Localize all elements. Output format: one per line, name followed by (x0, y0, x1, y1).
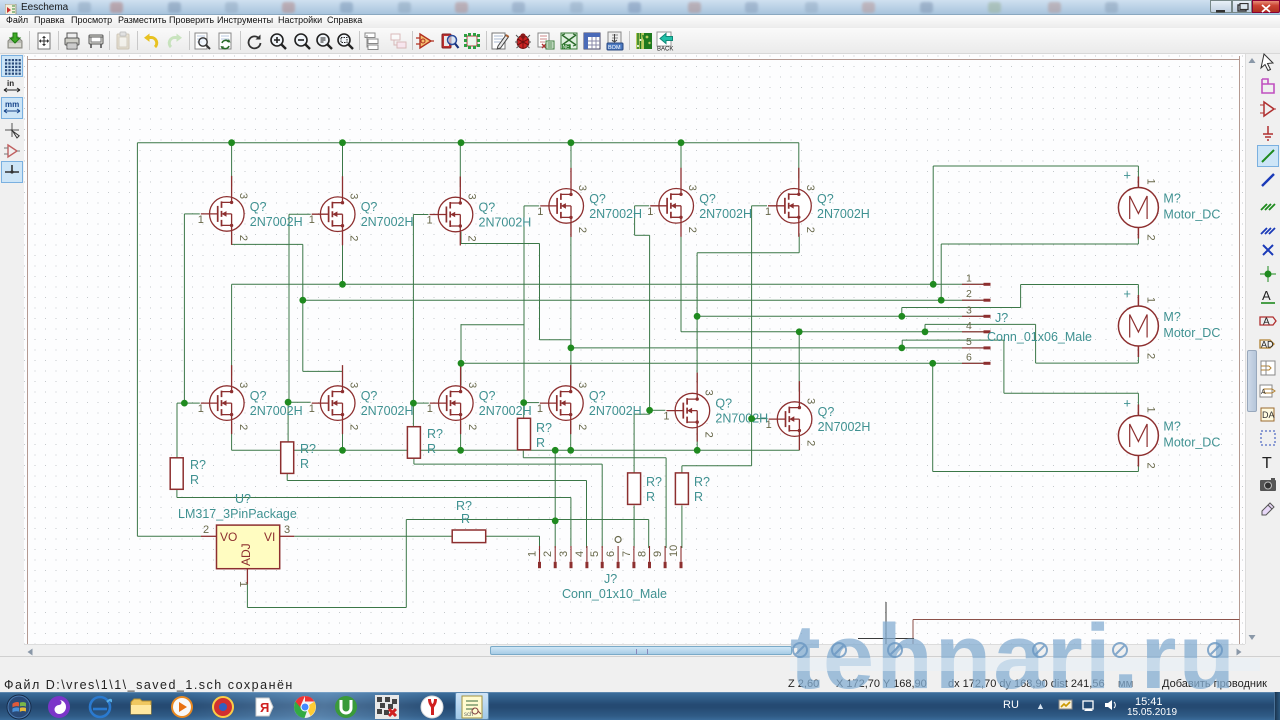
wire motor2+ drop (1137, 285, 1139, 297)
svg-text:1: 1 (427, 403, 433, 415)
junction pin1/motor1+ (930, 281, 937, 288)
svg-text:Я: Я (260, 700, 269, 715)
svg-text:1: 1 (537, 403, 543, 415)
svg-text:3: 3 (284, 524, 290, 536)
wire to Q2b drain (342, 371, 344, 375)
svg-text:2: 2 (466, 424, 478, 430)
cursor crosshair (858, 602, 914, 652)
wire J10 pin8 drop (648, 520, 650, 549)
svg-text:2N7002H: 2N7002H (250, 404, 303, 418)
junction bus J10 pin2 (552, 447, 559, 454)
svg-text:M?: M? (1163, 310, 1180, 324)
svg-text:2: 2 (466, 236, 478, 242)
svg-text:R: R (461, 512, 470, 526)
junction pin1/Q2 source (339, 281, 346, 288)
junction on top rail (678, 139, 685, 146)
svg-text:Conn_01x06_Male: Conn_01x06_Male (987, 330, 1092, 344)
junction Q3 gates (410, 400, 417, 407)
pin 8 of J10 (649, 546, 651, 562)
wire motor3+ jog v (901, 340, 903, 348)
wire motor3- horizontal (933, 471, 1139, 473)
pin 2 of J10 (554, 546, 556, 562)
svg-text:NET: NET (563, 45, 573, 51)
wire to Q3 bottom gate (413, 402, 428, 404)
svg-text:3: 3 (348, 193, 360, 199)
svg-text:2N7002H: 2N7002H (589, 404, 642, 418)
wire Q1 top source down (231, 231, 233, 244)
svg-text:1: 1 (1144, 297, 1156, 303)
transistor Q5 (bottom row) (198, 365, 303, 434)
svg-text:Q?: Q? (589, 389, 606, 403)
svg-text:2: 2 (203, 524, 209, 536)
wire R5 top (633, 414, 635, 473)
svg-text:4: 4 (966, 320, 972, 332)
svg-text:Motor_DC: Motor_DC (1163, 208, 1220, 222)
wire to Q4 bottom gate (524, 402, 539, 404)
junction Q4 gates (520, 399, 527, 406)
wire R6 top (681, 466, 683, 473)
wire R4 to J10 pin9 (523, 457, 666, 459)
svg-text:AD: AD (1261, 340, 1274, 350)
resistor R9 (452, 499, 486, 543)
svg-text:1: 1 (198, 403, 204, 415)
wire R5 jog v (649, 410, 651, 414)
wire Q2 gate bus (288, 214, 290, 402)
svg-text:VO: VO (220, 530, 237, 544)
svg-text:+: + (1123, 168, 1131, 183)
wire R3 top (412, 403, 414, 427)
wire motor1- drop (1137, 237, 1139, 244)
wire U1 ADJ down (246, 584, 248, 607)
wire J10 pin5 drop (601, 464, 603, 548)
wire top rail to Q1 drain (231, 143, 233, 187)
svg-text:5: 5 (966, 336, 972, 348)
svg-text:2N7002H: 2N7002H (699, 207, 752, 221)
wire top rail to Q5 drain (680, 143, 682, 179)
wire source bus to J10 pin2 (554, 450, 556, 548)
wire R9 to J10 pin1 (486, 535, 540, 537)
wire Q3 source down 2 (539, 244, 541, 340)
junction bus Q2b source (339, 447, 346, 454)
svg-text:+: + (1123, 396, 1131, 411)
svg-text:2: 2 (542, 551, 554, 557)
wire Q3 source into pin5 (570, 340, 572, 348)
pin 4 of J2 (962, 331, 984, 333)
wire motor2- riser (1035, 324, 1037, 363)
wire Q4b source down (570, 421, 572, 451)
svg-text:2: 2 (805, 440, 817, 446)
sheet frame top border (28, 59, 1240, 61)
junction pin6 (458, 360, 465, 367)
svg-text:3: 3 (237, 382, 249, 388)
svg-text:R?: R? (456, 499, 472, 513)
title block left edge (912, 620, 914, 645)
wire motor2+ jog h (902, 307, 1021, 309)
no-connect circle on pin 6 of J10 (615, 537, 621, 543)
wire R2 bottom (286, 473, 288, 480)
pin 5 of J2 (962, 347, 984, 349)
svg-text:1: 1 (527, 551, 539, 557)
wire motor3- drop (1137, 465, 1139, 472)
svg-text:Q?: Q? (361, 200, 378, 214)
svg-text:R: R (190, 473, 199, 487)
wire J10 pin1 drop (539, 536, 541, 548)
wire motor3+ riser (1003, 340, 1005, 393)
transistor Q4 (top row) (537, 168, 642, 237)
svg-text:Q?: Q? (361, 389, 378, 403)
svg-text:LM317_3PinPackage: LM317_3PinPackage (178, 507, 297, 521)
resistor R5 (628, 473, 662, 505)
wire to Q2 top gate (289, 213, 311, 215)
junction pin3 (694, 313, 701, 320)
svg-text:1: 1 (537, 206, 543, 218)
wire Q3 source jog h2 (540, 339, 571, 341)
wire pin1 to Q1b drain (231, 284, 233, 375)
wire Q2 top source down (342, 232, 344, 285)
wire R1 top (176, 403, 178, 458)
wire motor1- horizontal (941, 243, 1138, 245)
svg-text:2: 2 (237, 424, 249, 430)
transistor Q2 (top row) (309, 176, 414, 245)
svg-text:2N7002H: 2N7002H (589, 207, 642, 221)
wire J2 pin6 net (461, 362, 986, 364)
junction Q6 gates (748, 415, 755, 422)
wire J2 pin1 net (232, 283, 984, 285)
wire R2 top (287, 402, 289, 442)
wire R1 to J10 pin3 (177, 497, 571, 499)
wire motor2+ riser (1020, 285, 1022, 308)
svg-text:3: 3 (576, 185, 588, 191)
junction on top rail (458, 139, 465, 146)
wire R4 bottom (522, 450, 524, 458)
svg-text:+: + (1123, 286, 1131, 301)
wire Q5 gate jog v (634, 206, 636, 236)
junction pin5/motor3+ (898, 345, 905, 352)
junction ADJ line / J10 pin2 (552, 517, 559, 524)
junction pin6/motor3- (929, 360, 936, 367)
svg-text:2: 2 (804, 227, 816, 233)
resistor R6 (675, 473, 710, 505)
junction pin2 (299, 297, 306, 304)
svg-text:2: 2 (1144, 353, 1156, 359)
wire motor3+ jog h (902, 339, 1004, 341)
svg-text:Q?: Q? (818, 405, 835, 419)
junction pin5 (568, 345, 575, 352)
motor M2 (1118, 286, 1220, 359)
wire Q5 gate jog h (635, 234, 650, 236)
svg-text:8: 8 (637, 551, 649, 557)
junction bus Q3b source (457, 447, 464, 454)
svg-text:ADJ: ADJ (239, 543, 253, 566)
wire R6 to J10 pin10 (681, 505, 683, 548)
pin 6 of J2 (962, 362, 984, 364)
pin 7 of J10 (633, 546, 635, 562)
wire ADJ to J10 pin8 (406, 519, 648, 521)
wire Q6 source jog (697, 252, 799, 254)
svg-text:2: 2 (1144, 463, 1156, 469)
svg-text:BACK: BACK (657, 47, 673, 52)
wire J10 pin9 drop (665, 458, 667, 548)
svg-text:2: 2 (686, 227, 698, 233)
svg-text:3: 3 (702, 390, 714, 396)
svg-text:7: 7 (621, 551, 633, 557)
wire Q3 top source down (460, 232, 462, 244)
svg-text:Q?: Q? (817, 192, 834, 206)
wire top rail to Q4 drain (570, 143, 572, 179)
svg-text:2N7002H: 2N7002H (250, 215, 303, 229)
svg-text:M?: M? (1163, 192, 1180, 206)
svg-text:3: 3 (804, 185, 816, 191)
wire Q3 source jog h (461, 243, 540, 245)
wire Q4 gate bus (523, 206, 525, 403)
svg-text:3: 3 (348, 382, 360, 388)
svg-text:R?: R? (536, 421, 552, 435)
svg-text:Q?: Q? (589, 192, 606, 206)
svg-text:R: R (536, 436, 545, 450)
svg-text:R: R (694, 490, 703, 504)
wire motor2- jog v (924, 324, 926, 332)
pin 4 of J10 (586, 546, 588, 562)
junction bus Q4b source (567, 447, 574, 454)
svg-text:R: R (646, 490, 655, 504)
wire Q1 gate bus (183, 214, 185, 403)
wire source bus (232, 449, 800, 451)
wire J10 pin3 drop (570, 498, 572, 549)
svg-text:R?: R? (646, 475, 662, 489)
svg-text:mm: mm (5, 100, 19, 109)
svg-text:3: 3 (237, 193, 249, 199)
pin 9 of J10 (664, 546, 666, 562)
svg-text:5: 5 (589, 551, 601, 557)
wire top rail to Q2 drain (342, 143, 344, 187)
transistor Q5 (top row) (647, 168, 752, 237)
resistor R3 (407, 427, 443, 459)
wire J2 pin2 net (303, 299, 984, 301)
svg-text:2N7002H: 2N7002H (479, 216, 532, 230)
wire to Q6 top gate (752, 205, 767, 207)
svg-text:1: 1 (647, 206, 653, 218)
svg-text:2N7002H: 2N7002H (479, 404, 532, 418)
wire J10 pin4 drop (586, 481, 588, 549)
wire Q6 source to pin3 and Q5b drain (696, 253, 698, 383)
voltage regulator U1 LM317_3PinPackage (178, 492, 297, 587)
svg-text:1: 1 (198, 214, 204, 226)
svg-text:R?: R? (427, 427, 443, 441)
sheet frame right border (1239, 56, 1241, 644)
transistor Q10 (bottom row) (766, 381, 871, 450)
transistor Q7 (bottom row) (427, 365, 532, 434)
wire Q2b source down (342, 421, 344, 451)
connector J10 Conn_01x10_Male (527, 537, 682, 602)
svg-text:Q?: Q? (250, 389, 267, 403)
wire pin2 down (302, 300, 304, 371)
wire motor2- jog h (925, 323, 1036, 325)
wire motor1- riser (940, 244, 942, 300)
transistor Q3 (top row) (427, 177, 532, 246)
junction pin4/Q6b drain (796, 328, 803, 335)
wire motor2+ horizontal (1021, 284, 1139, 286)
wire to Q5 bottom gate (650, 409, 666, 411)
wire R6 riser (751, 419, 753, 466)
junction Q2 gates (285, 399, 292, 406)
wire Q5 top source down (680, 233, 682, 331)
wire pin6 spur (461, 324, 524, 326)
svg-text:10: 10 (668, 545, 680, 557)
svg-text:3: 3 (966, 304, 972, 316)
svg-text:M?: M? (1163, 420, 1180, 434)
wire Q1 source jog (232, 243, 303, 245)
svg-text:2N7002H: 2N7002H (715, 412, 768, 426)
pin 1 of J10 (539, 546, 541, 562)
svg-text:Conn_01x10_Male: Conn_01x10_Male (562, 587, 667, 601)
svg-text:Motor_DC: Motor_DC (1163, 326, 1220, 340)
transistor Q1 (top row) (198, 176, 303, 245)
wire R3 bottom (413, 458, 415, 464)
svg-text:R?: R? (300, 442, 316, 456)
svg-text:2: 2 (702, 432, 714, 438)
wire R4 top (523, 403, 525, 419)
wire pin2 jog (303, 370, 343, 372)
title block top edge (913, 619, 1240, 621)
transistor Q8 (bottom row) (537, 365, 642, 434)
svg-text:BOM: BOM (608, 45, 621, 51)
svg-text:2: 2 (576, 424, 588, 430)
wire motor2+ jog v (901, 308, 903, 317)
wire top rail to Q6 drain (798, 143, 800, 179)
svg-text:T: T (1262, 455, 1272, 472)
svg-text:2: 2 (1144, 235, 1156, 241)
svg-text:R: R (300, 457, 309, 471)
wire U1 VI to R9 (294, 535, 452, 537)
svg-text:Q?: Q? (715, 397, 732, 411)
svg-text:1: 1 (1144, 407, 1156, 413)
svg-text:1: 1 (766, 419, 772, 431)
svg-text:J?: J? (604, 572, 617, 586)
wire to Q1 top gate (184, 213, 199, 215)
wire motor1+ riser (932, 166, 934, 284)
wire motor3+ horizontal (1004, 392, 1139, 394)
svg-text:A: A (1263, 316, 1270, 327)
svg-text:Q?: Q? (250, 200, 267, 214)
svg-text:2N7002H: 2N7002H (817, 207, 870, 221)
motor M3 (1118, 396, 1220, 469)
svg-text:VI: VI (264, 530, 275, 544)
svg-text:4: 4 (574, 551, 586, 557)
pin 1 of J2 (962, 283, 984, 285)
svg-text:1: 1 (663, 411, 669, 423)
svg-text:2: 2 (348, 235, 360, 241)
wire R1 top jog (177, 402, 184, 404)
junction pin2/motor1- (938, 297, 945, 304)
wire motor3+ drop (1137, 393, 1139, 406)
svg-text:3: 3 (686, 185, 698, 191)
wire motor1+ horizontal (933, 165, 1138, 167)
svg-text:R: R (427, 442, 436, 456)
svg-text:2: 2 (576, 227, 588, 233)
transistor Q6 (top row) (765, 168, 870, 237)
sheet frame left border (27, 56, 29, 644)
junction pin3/motor2+ (898, 313, 905, 320)
svg-text:A: A (1261, 389, 1266, 396)
wire J2 pin4 net (681, 331, 986, 333)
wire Q5b source down (696, 428, 698, 450)
svg-text:2: 2 (966, 288, 972, 300)
svg-text:3: 3 (466, 194, 478, 200)
wire VCC top rail (137, 142, 799, 144)
wire top rail to Q3 drain (459, 143, 461, 187)
svg-text:1: 1 (309, 403, 315, 415)
junction on top rail (228, 139, 235, 146)
junction bus Q5b source (694, 447, 701, 454)
svg-text:Q?: Q? (479, 201, 496, 215)
wire motor3- riser (932, 363, 934, 471)
wire to Q6 bottom gate (752, 418, 768, 420)
wire pin4 to Q6b drain (798, 332, 800, 392)
wire to Q3 top gate (413, 214, 428, 216)
wire to Q1 bottom gate (184, 402, 199, 404)
wire J2 pin3 net (697, 315, 983, 317)
wire pin6 upper vertical / Q3b drain (460, 324, 462, 386)
svg-text:2N7002H: 2N7002H (361, 404, 414, 418)
svg-text:2N7002H: 2N7002H (361, 215, 414, 229)
wire left rail down to U1 (136, 143, 138, 537)
svg-text:R?: R? (694, 475, 710, 489)
svg-text:2: 2 (237, 235, 249, 241)
pin 5 of J10 (601, 546, 603, 562)
wire R5 jog h (634, 413, 650, 415)
svg-text:6: 6 (966, 351, 972, 363)
svg-text:DA: DA (1262, 410, 1275, 420)
wire Q6 top source down (798, 233, 800, 253)
svg-text:3: 3 (805, 398, 817, 404)
svg-text:6: 6 (605, 551, 617, 557)
junction Q1 gates (181, 400, 188, 407)
svg-text:3: 3 (466, 382, 478, 388)
wire to Q2 bottom gate (289, 401, 311, 403)
junction pin4/motor2- (922, 328, 929, 335)
wire Q1 source to pin2 (302, 244, 304, 300)
svg-text:1: 1 (309, 214, 315, 226)
svg-text:A: A (1262, 288, 1271, 303)
svg-text:J?: J? (995, 311, 1008, 325)
wire Q4 top source to Q4b drain (570, 223, 572, 386)
svg-text:2N7002H: 2N7002H (818, 420, 871, 434)
resistor R2 (281, 442, 316, 474)
svg-text:Q?: Q? (699, 192, 716, 206)
wire motor1+ drop (1137, 166, 1139, 178)
wire ADJ bottom (247, 607, 406, 609)
svg-text:2: 2 (348, 424, 360, 430)
motor M1 (1118, 168, 1220, 241)
wire Q1b source down (231, 421, 233, 451)
svg-text:Q?: Q? (479, 389, 496, 403)
wire Q6 gate bus (751, 206, 753, 419)
svg-text:1: 1 (1144, 179, 1156, 185)
wire R6 jog h (682, 465, 752, 467)
wire R2 to J10 pin4 (287, 480, 586, 482)
svg-text:1: 1 (237, 581, 249, 587)
wire J2 pin5 net (571, 347, 989, 349)
pin 3 of J2 (962, 315, 984, 317)
wire to U1 VO pin (137, 535, 201, 537)
wire Q5 gate bus (649, 235, 651, 410)
pin 6 of J10 (617, 546, 619, 562)
junction Q5 gates (646, 407, 653, 414)
resistor R4 (518, 418, 553, 450)
svg-text:1: 1 (966, 272, 972, 284)
connector J2 Conn_01x06_Male (962, 272, 1092, 363)
pin 3 of J10 (570, 546, 572, 562)
